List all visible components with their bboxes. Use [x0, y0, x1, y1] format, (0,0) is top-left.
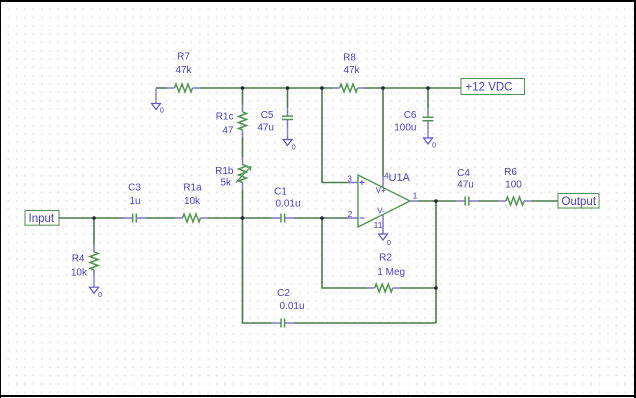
resistor R6	[499, 167, 532, 205]
Input port	[25, 211, 59, 226]
wire C2 to output vertical	[294, 322, 436, 324]
Output port	[558, 194, 599, 209]
node R1b bottom	[241, 216, 245, 220]
wire R2 to output vertical	[400, 287, 436, 289]
node C6 top	[426, 86, 430, 90]
wire C3 to R1a	[146, 217, 176, 219]
wire top rail middle segment	[200, 87, 333, 89]
wire R1a to C1	[208, 217, 272, 219]
svg-text:0: 0	[292, 143, 296, 152]
ground	[90, 278, 103, 300]
node R4 tap	[92, 216, 96, 220]
resistor R1c	[216, 105, 247, 138]
resistor R2	[367, 253, 405, 293]
svg-text:47: 47	[222, 126, 234, 137]
node R1c top	[241, 86, 245, 90]
ground	[379, 234, 391, 247]
svg-text:C4: C4	[457, 168, 470, 179]
capacitor C4	[456, 168, 478, 206]
svg-text:R2: R2	[379, 253, 392, 264]
svg-text:47k: 47k	[343, 65, 360, 76]
wire top rail left segment	[156, 87, 167, 89]
node C5 top	[286, 86, 290, 90]
wire noninverting input net	[322, 88, 348, 183]
svg-text:R1a: R1a	[183, 183, 202, 194]
wire C2 left vertical	[243, 218, 272, 323]
svg-text:0: 0	[432, 141, 436, 150]
wire output vertical	[435, 201, 437, 323]
svg-text:+12 VDC: +12 VDC	[466, 82, 513, 94]
ground	[424, 129, 437, 149]
wire R1c top	[242, 88, 244, 105]
svg-text:0.01u: 0.01u	[279, 301, 304, 312]
resistor R4	[71, 245, 98, 279]
svg-text:11: 11	[374, 220, 383, 230]
svg-text:C3: C3	[128, 183, 141, 194]
svg-text:R7: R7	[177, 52, 190, 63]
wire input to C3	[59, 217, 124, 219]
resistor R8	[332, 53, 365, 93]
node op-amp output	[434, 199, 438, 203]
wire R1c to R1b	[242, 138, 244, 158]
capacitor C6	[394, 109, 433, 134]
pin 3 stub	[347, 174, 358, 184]
wire output node	[419, 200, 457, 202]
svg-text:C6: C6	[404, 110, 417, 121]
svg-text:U1A: U1A	[389, 172, 411, 184]
capacitor C5	[257, 108, 293, 134]
resistor R1a	[175, 183, 208, 223]
wire inverting node down	[322, 218, 367, 288]
svg-text:0: 0	[98, 290, 102, 299]
capacitor C3	[124, 183, 146, 223]
svg-text:2: 2	[348, 209, 353, 219]
svg-text:V-: V-	[377, 207, 385, 216]
node V+ rail	[381, 86, 385, 90]
capacitor C2	[272, 288, 305, 328]
node bias tap	[320, 86, 324, 90]
svg-text:47k: 47k	[175, 65, 192, 76]
svg-text:10k: 10k	[184, 196, 201, 207]
svg-text:C1: C1	[274, 187, 287, 198]
svg-text:1u: 1u	[129, 196, 140, 207]
node inverting input	[320, 216, 324, 220]
svg-text:R6: R6	[504, 167, 517, 178]
wire C1 to pin2 node	[294, 217, 348, 219]
wire R6 to output port	[532, 200, 559, 202]
pin 11 stub	[374, 214, 383, 234]
svg-text:R4: R4	[72, 254, 85, 265]
svg-text:47u: 47u	[257, 123, 274, 134]
wire C6 top	[427, 88, 429, 109]
svg-text:0: 0	[160, 106, 164, 115]
svg-text:100: 100	[505, 180, 522, 191]
ground	[283, 128, 296, 152]
wire R1b bottom	[242, 190, 244, 218]
svg-text:0.01u: 0.01u	[275, 199, 300, 210]
wire C5 top	[287, 88, 289, 108]
ground	[152, 88, 164, 115]
svg-text:0: 0	[387, 238, 391, 247]
potentiometer R1b	[215, 157, 251, 190]
svg-text:C2: C2	[277, 288, 290, 299]
svg-text:V+: V+	[376, 186, 386, 195]
resistor R7	[167, 52, 200, 93]
op-amp U1A	[358, 172, 411, 227]
svg-text:Output: Output	[562, 196, 597, 208]
svg-text:C5: C5	[261, 110, 274, 121]
svg-text:100u: 100u	[394, 123, 416, 134]
svg-text:R8: R8	[343, 53, 356, 64]
svg-text:1: 1	[413, 191, 418, 201]
svg-text:R1c: R1c	[216, 112, 234, 123]
pin 2 stub	[348, 209, 359, 219]
pin 4 stub	[383, 171, 389, 189]
svg-text:5k: 5k	[220, 177, 232, 188]
svg-text:10k: 10k	[71, 268, 88, 279]
node R2 right	[434, 286, 438, 290]
wire top rail right segment	[364, 87, 461, 89]
svg-text:1 Meg: 1 Meg	[377, 267, 405, 278]
+12 VDC port	[461, 79, 525, 95]
svg-text:R1b: R1b	[215, 166, 234, 177]
svg-text:3: 3	[347, 174, 352, 184]
capacitor C1	[272, 187, 301, 223]
svg-text:Input: Input	[29, 213, 55, 225]
wire C4 to R6	[478, 200, 499, 202]
pin 1 stub	[410, 191, 419, 202]
wire V+ supply down	[382, 88, 384, 177]
svg-text:47u: 47u	[457, 180, 474, 191]
wire R4 top	[93, 218, 95, 245]
